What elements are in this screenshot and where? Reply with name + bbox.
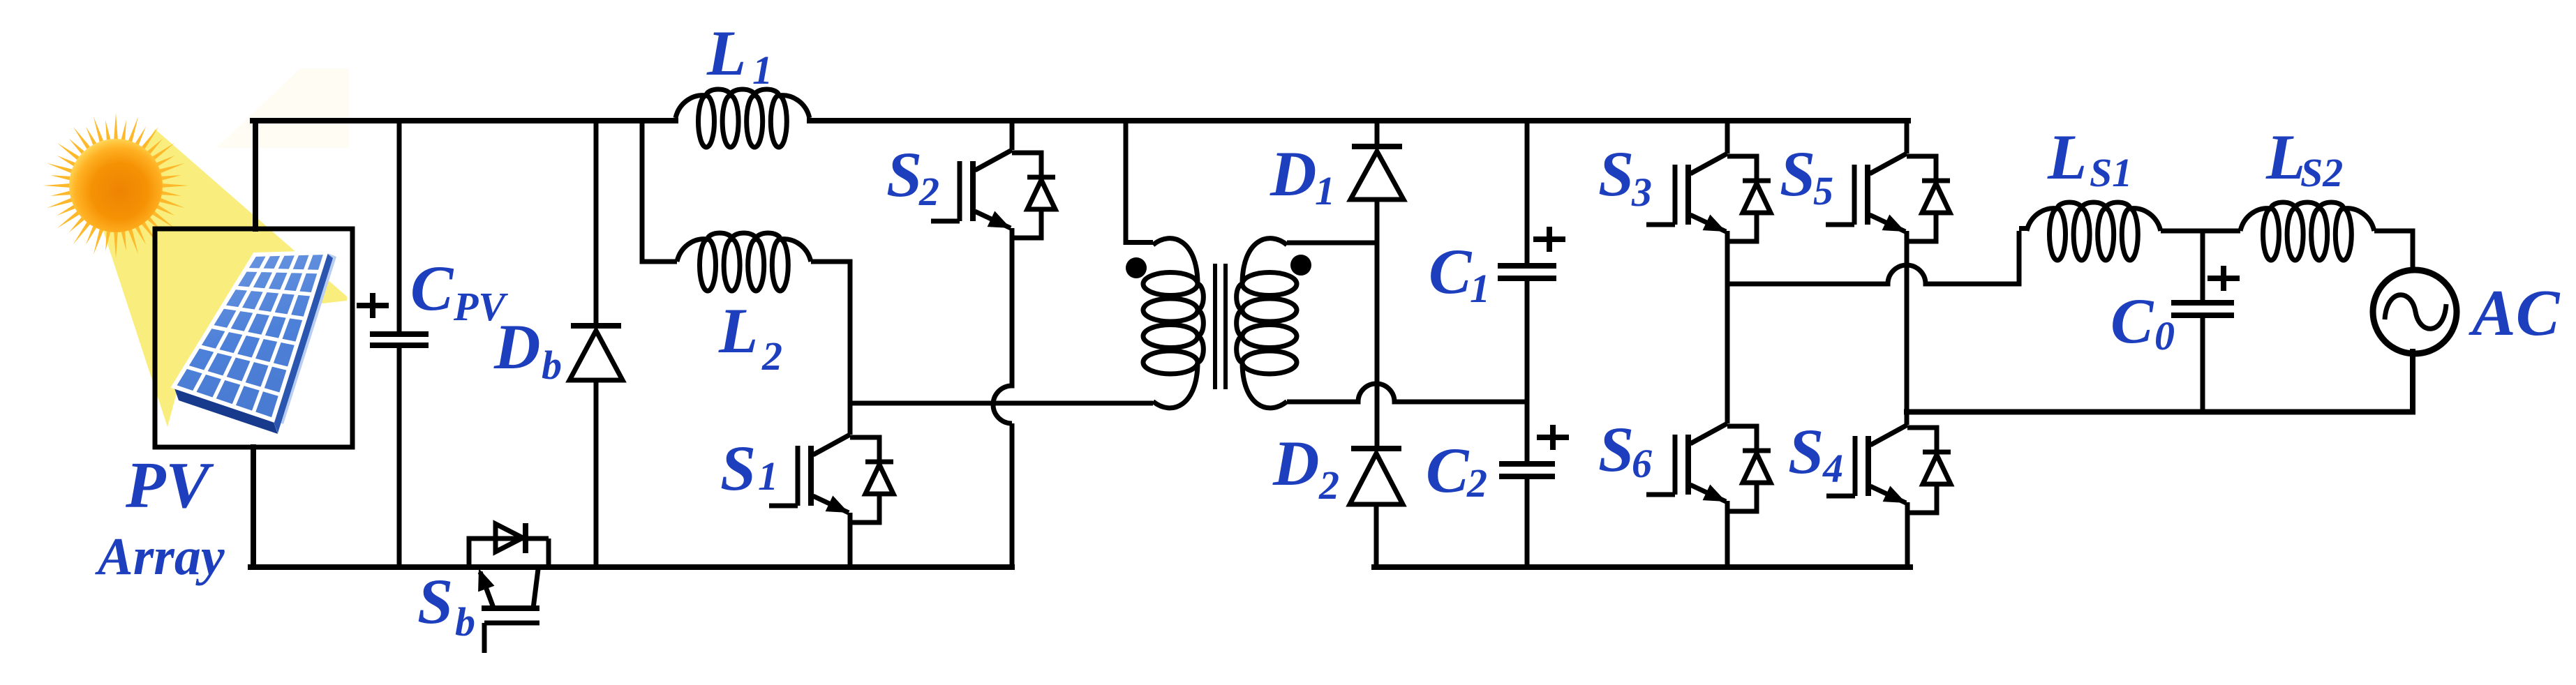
capacitor C_PV leads (397, 120, 402, 567)
svg-text:1: 1 (752, 47, 773, 93)
label Array (95, 527, 225, 586)
capacitor C2 (1499, 464, 1555, 476)
transformer secondary winding (1237, 239, 1297, 408)
label C_PV (410, 253, 508, 329)
wire: top bus to S5 (1905, 120, 1909, 153)
transformer primary dot (1126, 257, 1147, 278)
label D2 (1272, 428, 1339, 508)
label L2 (718, 295, 782, 379)
diode D_b (569, 326, 623, 380)
svg-text:L: L (718, 295, 758, 366)
svg-text:S2: S2 (2300, 150, 2343, 195)
AC source (2373, 270, 2457, 354)
label PV (125, 449, 214, 522)
label S4 (1788, 416, 1843, 491)
PV panel graphic (174, 253, 336, 434)
wire: S3/S6 midpoint to L_S1 (hop over S5 leg) (1727, 229, 2027, 287)
svg-text:S: S (886, 139, 922, 210)
wire: secondary bottom with hop over D1-D2 leg (1287, 384, 1527, 402)
label C2 (1426, 435, 1487, 506)
svg-text:S: S (1788, 416, 1824, 487)
transistor S1 (IGBT) (769, 435, 893, 522)
wire: S1 collector (848, 403, 853, 435)
wire: S1 emitter to bottom bus (848, 513, 853, 567)
svg-text:PV: PV (125, 449, 214, 522)
label D_b (493, 311, 562, 388)
wire: S2 emitter down with hop over node (993, 228, 1012, 567)
transistor S3 (IGBT) (1646, 153, 1771, 241)
svg-text:S1: S1 (2090, 150, 2132, 195)
svg-text:2: 2 (761, 333, 782, 379)
label C1 (1429, 236, 1490, 311)
C_PV polarity + (357, 293, 389, 318)
wire: top bus to S3 (1725, 120, 1730, 153)
svg-text:S: S (1598, 138, 1634, 209)
diode D_b leads (594, 120, 599, 567)
wire: secondary top to D1 anode node (1287, 241, 1377, 246)
transistor S_b (IGBT with series diode) (467, 523, 549, 653)
svg-text:L: L (706, 17, 746, 89)
wire: S5 emitter to S4 collector (1905, 231, 1909, 425)
inductor L1 (676, 89, 810, 147)
wire: S3 emitter to S6 collector (1725, 231, 1730, 423)
wire: S6 emitter to bottom bus (1725, 501, 1730, 567)
svg-text:C: C (410, 253, 454, 324)
transistor S6 (IGBT) (1646, 423, 1771, 511)
label S5 (1780, 138, 1833, 213)
wire: bottom bus (middle section) (1374, 564, 1910, 570)
svg-text:C: C (1426, 435, 1470, 506)
svg-text:D: D (1270, 138, 1316, 209)
capacitor C1 (1498, 266, 1556, 278)
transformer core (1215, 264, 1226, 389)
transistor S2 (IGBT) (931, 150, 1055, 238)
svg-text:b: b (455, 599, 475, 645)
label S6 (1598, 414, 1652, 486)
label L_S1 (2047, 121, 2132, 195)
wire: top bus to L2 (640, 120, 678, 262)
PV array box (155, 229, 352, 447)
label S1 (720, 432, 778, 504)
transistor S4 (IGBT) (1826, 425, 1951, 513)
label S2 (886, 139, 939, 214)
svg-text:0: 0 (2154, 313, 2175, 359)
diode D2 (1350, 449, 1403, 504)
wire: top bus to S2 collector (1010, 120, 1015, 150)
transistor S5 (IGBT) (1826, 153, 1950, 241)
svg-text:4: 4 (1822, 446, 1843, 491)
transformer secondary dot (1290, 255, 1311, 276)
svg-text:S: S (1598, 414, 1634, 485)
inductor L2 (677, 233, 811, 291)
wire: PV negative lead and bottom bus (left) (251, 447, 1012, 567)
faint glow (216, 68, 349, 148)
wire: S4 emitter to bottom bus (1905, 502, 1910, 567)
wire: top bus to transformer primary (top) (1126, 120, 1153, 245)
svg-text:2: 2 (1318, 462, 1339, 508)
svg-text:3: 3 (1631, 170, 1652, 215)
svg-text:5: 5 (1813, 168, 1833, 213)
label L1 (706, 17, 773, 93)
svg-text:1: 1 (758, 453, 778, 499)
label D1 (1270, 138, 1335, 213)
transformer primary winding (1143, 239, 1203, 408)
wire: L2 to S1 leg (811, 259, 850, 404)
svg-text:1: 1 (1470, 266, 1490, 311)
svg-text:C: C (2110, 285, 2154, 356)
wire: L_S1 to L_S2 / C_0 node (2161, 229, 2240, 234)
svg-text:S: S (720, 432, 756, 504)
inductor L_S2 (2240, 202, 2374, 260)
diode D1 (1350, 146, 1404, 200)
capacitor C_0 (2171, 303, 2234, 315)
label S3 (1598, 138, 1652, 215)
svg-text:L: L (2047, 121, 2087, 193)
capacitor C_0 leads (2201, 231, 2205, 412)
inductor L_S1 (2027, 202, 2161, 260)
sunlight beam (102, 129, 347, 427)
sun icon (43, 113, 188, 258)
svg-text:D: D (493, 311, 540, 382)
wire: S5/S4 midpoint to AC (lower output bus) (1907, 352, 2413, 412)
svg-text:2: 2 (918, 169, 939, 214)
svg-text:Array: Array (95, 527, 225, 586)
svg-text:S: S (417, 566, 453, 637)
svg-text:b: b (542, 342, 562, 388)
label L_S2 (2265, 121, 2343, 195)
C2 polarity + (1537, 425, 1569, 450)
svg-text:AC: AC (2469, 277, 2561, 349)
svg-text:D: D (1272, 428, 1319, 499)
svg-text:6: 6 (1632, 441, 1652, 486)
svg-text:C: C (1429, 236, 1473, 307)
capacitor C_PV (370, 334, 429, 345)
label C_0 (2110, 285, 2175, 359)
C1 polarity + (1533, 227, 1565, 252)
svg-text:L: L (2265, 121, 2305, 193)
wire: C1-C2 leg (1525, 120, 1530, 567)
wire: L_S2 to AC source (2374, 229, 2413, 272)
label S_b (417, 566, 475, 645)
svg-text:S: S (1780, 138, 1815, 209)
label AC (2469, 277, 2561, 349)
svg-text:1: 1 (1315, 168, 1335, 213)
wire: S1/L2 node to transformer primary (bottom) (850, 401, 1153, 406)
C_0 polarity + (2208, 266, 2240, 291)
wire: rectifier leg D1-D2 (1376, 120, 1377, 567)
svg-text:2: 2 (1466, 460, 1487, 506)
wire: PV positive lead and top bus (253, 121, 1908, 229)
